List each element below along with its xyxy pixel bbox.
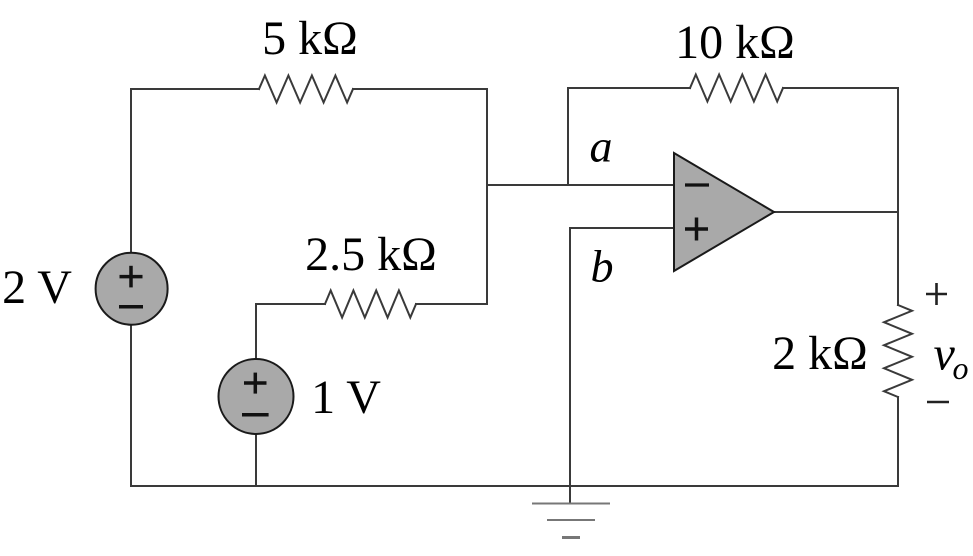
svg-text:b: b — [591, 241, 614, 292]
svg-text:2.5 kΩ: 2.5 kΩ — [305, 228, 437, 281]
svg-text:o: o — [953, 350, 969, 386]
svg-text:2 kΩ: 2 kΩ — [772, 327, 868, 380]
svg-text:5 kΩ: 5 kΩ — [262, 12, 358, 65]
svg-text:a: a — [590, 121, 613, 172]
svg-text:1 V: 1 V — [311, 371, 381, 424]
svg-text:2 V: 2 V — [2, 261, 72, 314]
svg-text:10 kΩ: 10 kΩ — [675, 16, 795, 69]
